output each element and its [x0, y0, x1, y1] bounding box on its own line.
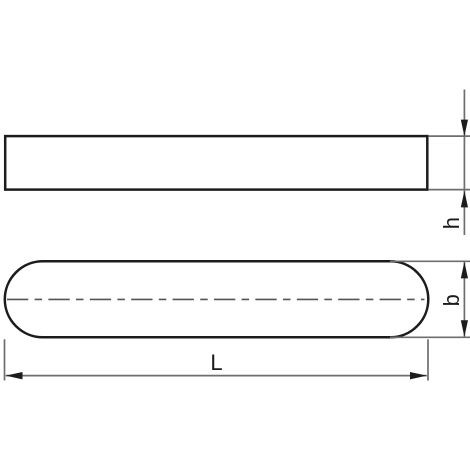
- svg-text:L: L: [210, 350, 222, 375]
- svg-text:h: h: [439, 217, 464, 229]
- svg-text:b: b: [439, 294, 464, 306]
